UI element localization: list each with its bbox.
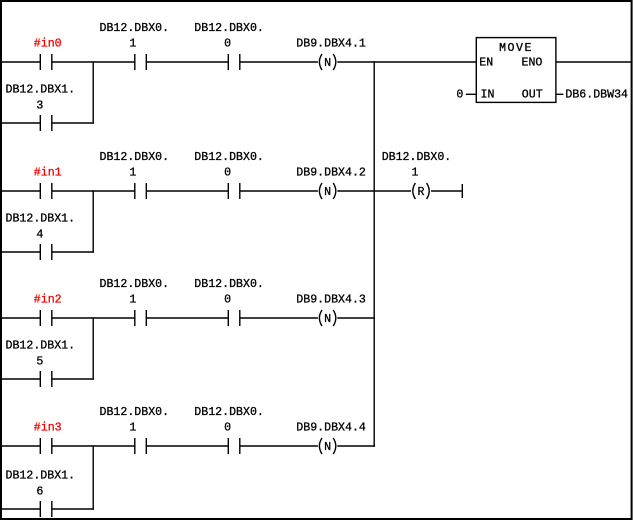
svg-text:DB12.DBX0.: DB12.DBX0. (100, 151, 170, 164)
svg-text:IN: IN (481, 88, 495, 101)
svg-text:#in3: #in3 (34, 422, 62, 435)
svg-text:0: 0 (224, 294, 231, 307)
wire rung2: contact DB12.DBX0.1 to contact DB12.DBX0.0 (146, 190, 228, 192)
svg-text:DB12.DBX1.: DB12.DBX1. (6, 470, 76, 483)
wire: constant 0 to IN pin (466, 93, 476, 95)
svg-text:DB12.DBX0.: DB12.DBX0. (100, 22, 170, 35)
contact DB12.DBX0.1 (135, 183, 147, 199)
wire branch3: contact to riser (52, 378, 94, 380)
box U1 MOVE (476, 38, 556, 103)
coil DB12.DBX0.1 reset (R) (413, 183, 429, 199)
svg-text:DB12.DBX0.: DB12.DBX0. (194, 278, 264, 291)
svg-text:1: 1 (129, 422, 136, 435)
label DB12.DBX1.3 (6, 84, 76, 113)
wire: OUT pin lead (556, 93, 563, 95)
wire branch4: contact to riser (52, 508, 94, 510)
coil DB9.DBX4.3 (N) (319, 310, 335, 326)
label DB12.DBX0.1 (reset coil) (382, 151, 452, 180)
contact DB12.DBX1.4 (40, 244, 52, 260)
wire rung2: contact DB12.DBX0.0 to coil DB9.DBX4.2 (240, 190, 318, 192)
wire rung4: rail to contact #in3 (2, 445, 40, 447)
svg-text:0: 0 (224, 167, 231, 180)
coil DB9.DBX4.1 (N) (319, 54, 335, 70)
wire: ENO to right rail (556, 61, 632, 63)
svg-text:DB12.DBX1.: DB12.DBX1. (6, 213, 76, 226)
svg-text:DB9.DBX4.1: DB9.DBX4.1 (296, 38, 366, 51)
label DB12.DBX0.1 (100, 406, 170, 435)
contact DB12.DBX0.0 (228, 438, 240, 454)
wire branch4: rail to contact DB12.DBX1.6 (2, 508, 40, 510)
svg-text:DB12.DBX0.: DB12.DBX0. (194, 151, 264, 164)
parallel branch riser rung2 (92, 190, 94, 252)
wire rung2: #in1 to contact DB12.DBX0.1 (52, 190, 135, 192)
parallel branch riser rung3 (92, 317, 94, 379)
contact DB12.DBX0.0 (228, 310, 240, 326)
label DB12.DBX0.1 (100, 151, 170, 180)
wire rung4: contact DB12.DBX0.1 to contact DB12.DBX0.0 (146, 445, 228, 447)
svg-text:DB12.DBX1.: DB12.DBX1. (6, 340, 76, 353)
svg-text:DB6.DBW34: DB6.DBW34 (565, 88, 628, 101)
contact DB12.DBX0.1 (135, 54, 147, 70)
wire rung1: contact DB12.DBX0.1 to contact DB12.DBX0.0 (146, 61, 228, 63)
wire rung1: rail to contact #in0 (2, 61, 40, 63)
label DB12.DBX1.5 (6, 340, 76, 369)
svg-text:0: 0 (456, 88, 463, 101)
wire rung1: coil to MOVE box EN input (337, 61, 476, 63)
svg-text:0: 0 (224, 422, 231, 435)
wire rung4: coil to vertical bus (337, 445, 375, 447)
contact #in1 (40, 183, 52, 199)
svg-text:N: N (324, 313, 331, 326)
contact DB12.DBX0.0 (228, 183, 240, 199)
svg-text:#in2: #in2 (34, 294, 62, 307)
coil DB9.DBX4.2 (N) (319, 183, 335, 199)
wire branch3: rail to contact DB12.DBX1.5 (2, 378, 40, 380)
wire branch2: contact to riser (52, 251, 94, 253)
svg-text:1: 1 (129, 294, 136, 307)
svg-text:OUT: OUT (522, 88, 543, 101)
contact #in3 (40, 438, 52, 454)
wire rung2: rail to contact #in1 (2, 190, 40, 192)
svg-text:DB9.DBX4.2: DB9.DBX4.2 (296, 167, 366, 180)
parallel branch riser rung1 (92, 61, 94, 123)
label DB12.DBX0.0 (194, 406, 264, 435)
svg-text:R: R (418, 186, 425, 199)
label DB12.DBX0.1 (100, 278, 170, 307)
wire rung3: contact DB12.DBX0.0 to coil DB9.DBX4.3 (240, 317, 318, 319)
label DB12.DBX0.0 (194, 151, 264, 180)
svg-text:3: 3 (36, 100, 43, 113)
svg-text:6: 6 (36, 486, 43, 499)
label DB12.DBX0.0 (194, 22, 264, 51)
branch end marker tick (461, 184, 463, 198)
svg-text:1: 1 (412, 167, 419, 180)
left power rail (0, 1, 2, 519)
wire rung2: reset coil to branch end (431, 190, 462, 192)
svg-text:4: 4 (36, 229, 43, 242)
wire rung1: #in0 to contact DB12.DBX0.1 (52, 61, 135, 63)
parallel branch riser rung4 (92, 445, 94, 509)
contact #in0 (40, 54, 52, 70)
svg-text:N: N (324, 57, 331, 70)
svg-text:DB9.DBX4.3: DB9.DBX4.3 (296, 294, 366, 307)
wire branch1: rail to contact DB12.DBX1.3 (2, 122, 40, 124)
svg-text:ENO: ENO (522, 56, 543, 69)
svg-text:#in1: #in1 (34, 167, 62, 180)
label DB12.DBX1.6 (6, 470, 76, 499)
coil DB9.DBX4.4 (N) (319, 438, 335, 454)
svg-text:DB12.DBX0.: DB12.DBX0. (100, 406, 170, 419)
contact DB12.DBX0.1 (135, 438, 147, 454)
svg-text:N: N (324, 441, 331, 454)
svg-text:MOVE: MOVE (499, 42, 533, 55)
svg-text:N: N (324, 186, 331, 199)
wire rung4: contact DB12.DBX0.0 to coil DB9.DBX4.4 (240, 445, 318, 447)
wire branch2: rail to contact DB12.DBX1.4 (2, 251, 40, 253)
svg-text:DB9.DBX4.4: DB9.DBX4.4 (296, 422, 366, 435)
svg-text:#in0: #in0 (34, 38, 62, 51)
svg-text:1: 1 (129, 38, 136, 51)
contact #in2 (40, 310, 52, 326)
label DB12.DBX0.0 (194, 278, 264, 307)
contact DB12.DBX1.5 (40, 371, 52, 387)
svg-text:DB12.DBX0.: DB12.DBX0. (382, 151, 452, 164)
wire rung3: rail to contact #in2 (2, 317, 40, 319)
wire branch1: contact to riser (52, 122, 94, 124)
svg-text:1: 1 (129, 167, 136, 180)
wire rung3: coil to vertical bus (337, 317, 375, 319)
wire rung4: #in3 to contact DB12.DBX0.1 (52, 445, 135, 447)
label DB12.DBX0.1 (100, 22, 170, 51)
wire rung2: coil to reset coil DB12.DBX0.1 (337, 190, 411, 192)
label DB12.DBX1.4 (6, 213, 76, 242)
vertical link bus (rung1 to rung4) (373, 61, 375, 446)
wire rung1: contact DB12.DBX0.0 to coil DB9.DBX4.1 (240, 61, 318, 63)
svg-text:EN: EN (479, 56, 493, 69)
svg-text:DB12.DBX0.: DB12.DBX0. (194, 406, 264, 419)
svg-text:DB12.DBX0.: DB12.DBX0. (100, 278, 170, 291)
contact DB12.DBX0.1 (135, 310, 147, 326)
contact DB12.DBX1.6 (40, 501, 52, 517)
contact DB12.DBX1.3 (40, 115, 52, 131)
wire rung3: #in2 to contact DB12.DBX0.1 (52, 317, 135, 319)
svg-text:DB12.DBX1.: DB12.DBX1. (6, 84, 76, 97)
svg-text:5: 5 (36, 356, 43, 369)
svg-text:DB12.DBX0.: DB12.DBX0. (194, 22, 264, 35)
svg-text:0: 0 (224, 38, 231, 51)
wire rung3: contact DB12.DBX0.1 to contact DB12.DBX0.0 (146, 317, 228, 319)
contact DB12.DBX0.0 (228, 54, 240, 70)
